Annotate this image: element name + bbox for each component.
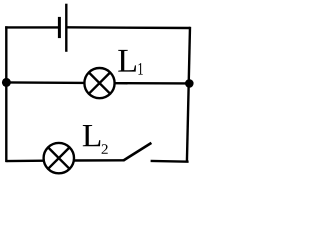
lamp L2	[44, 143, 74, 173]
wire: bottom rail middle segment to switch	[73, 159, 124, 162]
wire: middle rail left segment	[6, 81, 85, 84]
lamp L1	[84, 68, 114, 98]
node junction dot right	[185, 79, 194, 88]
battery B1 positive plate (long thin)	[65, 4, 67, 52]
wire: top-left horizontal to battery	[5, 26, 58, 28]
switch S1 fixed contact wire	[151, 160, 189, 163]
wire: battery to top-right corner	[66, 26, 190, 29]
wire: right vertical	[187, 27, 190, 163]
wire: middle rail right segment	[114, 82, 190, 85]
battery B1 negative plate (short thick)	[58, 17, 61, 38]
switch S1 blade (open)	[123, 143, 151, 161]
node junction dot left	[2, 78, 11, 87]
label L1	[118, 50, 143, 75]
wire: left vertical	[5, 26, 7, 162]
label L2	[83, 125, 108, 154]
wire: bottom rail left segment	[6, 159, 44, 162]
